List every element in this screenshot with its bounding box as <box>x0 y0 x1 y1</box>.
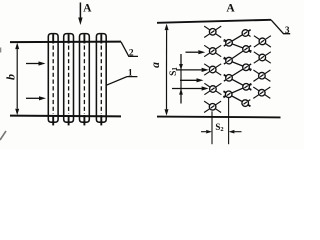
svg-text:A: A <box>83 3 92 15</box>
svg-text:a: a <box>150 62 162 68</box>
svg-text:S1: S1 <box>169 67 179 76</box>
svg-text:1: 1 <box>128 69 133 79</box>
svg-text:3: 3 <box>285 25 290 35</box>
svg-text:A: A <box>226 3 235 15</box>
svg-text:2: 2 <box>129 49 134 59</box>
svg-text:b: b <box>3 74 17 80</box>
